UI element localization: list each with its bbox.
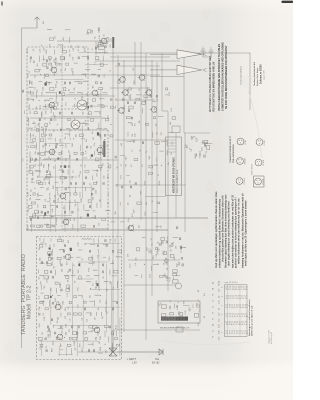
svg-text:Spenningene er malt med rorvol: Spenningene er malt med rorvoltmeter (248, 299, 251, 336)
svg-text:b: b (222, 314, 224, 315)
svg-text:15k: 15k (38, 211, 40, 214)
driver transformer T4 (166, 137, 182, 196)
svg-text:D17: D17 (65, 102, 67, 105)
svg-text:47p: 47p (130, 180, 132, 183)
svg-text:22n: 22n (136, 257, 138, 260)
svg-text:33k: 33k (39, 247, 41, 250)
wire: horizontal bus y=185 (115, 184, 186, 186)
pinout view U1 (237, 138, 244, 145)
svg-text:Modell TP 2-2: Modell TP 2-2 (26, 285, 32, 319)
svg-text:130: 130 (172, 142, 174, 145)
wire: left outer border (21, 28, 23, 348)
svg-text:3,3: 3,3 (78, 49, 80, 51)
svg-text:3,3: 3,3 (157, 99, 159, 102)
svg-text:D74: D74 (57, 187, 59, 190)
svg-text:15k: 15k (102, 163, 104, 166)
svg-text:C74: C74 (35, 164, 37, 167)
svg-text:4,7k: 4,7k (121, 175, 123, 179)
svg-text:R88: R88 (171, 242, 174, 247)
svg-text:R89: R89 (146, 202, 148, 205)
svg-text:15k: 15k (104, 34, 106, 37)
wire: horizontal bus y=100 (115, 99, 155, 101)
svg-text:39k: 39k (98, 307, 100, 310)
svg-text:L58: L58 (175, 246, 177, 249)
svg-text:50: 50 (68, 271, 70, 273)
svg-text:130: 130 (156, 123, 158, 126)
connector socket 1 (203, 52, 207, 56)
svg-text:0,1 2,1 0,1 2,1 75 6,0 0,1: 0,1 2,1 0,1 2,1 75 6,0 0,1 (226, 307, 249, 309)
svg-text:39k: 39k (70, 129, 72, 132)
svg-text:560: 560 (62, 269, 64, 272)
wire: vertical bus x=113 (112, 40, 114, 352)
wire: corner y=133 (184, 132, 210, 134)
svg-text:0,01: 0,01 (133, 139, 135, 143)
FM tuner inner shield partition (61, 109, 63, 130)
svg-text:C84: C84 (98, 93, 100, 96)
svg-text:8,2k: 8,2k (27, 118, 29, 122)
svg-text:82: 82 (68, 307, 70, 309)
wire: box bottom lead (145, 196, 166, 198)
svg-text:C50: C50 (63, 239, 65, 243)
transistor Q2 (92, 90, 98, 96)
svg-text:10n: 10n (115, 106, 117, 109)
transistor Q14 (123, 90, 129, 96)
transistor Q19 (128, 225, 134, 231)
svg-text:33k: 33k (49, 163, 51, 166)
svg-text:3,3: 3,3 (35, 126, 37, 129)
svg-text:0,01: 0,01 (40, 170, 42, 173)
svg-text:C93: C93 (133, 68, 135, 71)
svg-text:470: 470 (98, 223, 100, 226)
wire: horizontal bus y=96 (30, 95, 115, 97)
svg-text:8,4: 8,4 (198, 323, 200, 326)
transistor Q15 (146, 90, 152, 96)
wire: vertical bus x=118 (117, 55, 119, 330)
svg-text:1n: 1n (57, 123, 59, 125)
svg-text:3,3: 3,3 (142, 165, 144, 168)
svg-text:R13: R13 (63, 37, 65, 40)
wire: bus x=176 (175, 133, 177, 218)
svg-text:D48: D48 (95, 215, 97, 218)
svg-text:10n: 10n (34, 159, 36, 162)
svg-text:50: 50 (132, 150, 134, 152)
svg-text:10n: 10n (62, 98, 64, 101)
svg-text:T28: T28 (28, 209, 30, 212)
svg-text:27k: 27k (161, 225, 163, 228)
transistor Q6 (63, 219, 69, 225)
svg-text:L31: L31 (87, 319, 89, 322)
svg-text:33k: 33k (37, 175, 39, 178)
svg-text:50 209 aug 61: 50 209 aug 61 (271, 332, 273, 344)
voltage table box (225, 285, 248, 337)
upper tone cluster (150, 240, 184, 271)
antenna terminal symbols (201, 47, 206, 57)
svg-text:T3: T3 (213, 294, 215, 296)
svg-text:33k: 33k (67, 279, 69, 282)
FM mixer transistor (large) (77, 100, 87, 110)
FM strip divider (dashed) (27, 48, 62, 230)
svg-text:R62: R62 (70, 217, 72, 220)
svg-text:TRANSISTORENE ER SETT: TRANSISTORENE ER SETT (229, 135, 232, 163)
pinout view U2 (256, 139, 263, 146)
FM/IF strip components (27, 47, 110, 230)
svg-text:L40: L40 (121, 143, 123, 146)
svg-text:C91: C91 (47, 224, 49, 227)
svg-text:OC614: OC614 (263, 160, 265, 166)
svg-text:2,2k: 2,2k (61, 63, 63, 67)
svg-text:C17: C17 (93, 137, 95, 140)
svg-text:T58: T58 (44, 286, 46, 289)
svg-text:12k: 12k (86, 139, 88, 142)
svg-text:L39: L39 (46, 243, 48, 246)
svg-text:C71: C71 (54, 244, 56, 248)
svg-text:VED UTSKIFTING MA IMPEDANSEN V: VED UTSKIFTING MA IMPEDANSEN VARE LIK (213, 61, 216, 112)
transistor Q12 (120, 77, 126, 83)
svg-text:0,5: 0,5 (37, 287, 39, 290)
svg-text:12k: 12k (116, 184, 118, 187)
svg-text:T13: T13 (206, 151, 208, 154)
svg-text:mellom forekomme annet uten me: mellom forekomme annet uten mellom malt … (238, 198, 241, 264)
svg-text:5p: 5p (117, 166, 119, 168)
svg-text:0,5: 0,5 (39, 277, 41, 280)
wire: vertical bus x=96 (95, 41, 97, 55)
FM/IF strip wiring (31, 52, 108, 232)
svg-text:50: 50 (71, 124, 73, 126)
svg-text:2n: 2n (158, 174, 160, 176)
svg-text:33k: 33k (65, 136, 67, 139)
svg-text:D1: D1 (213, 324, 215, 326)
wire: vertical bus x=141 (140, 42, 142, 220)
svg-text:50: 50 (44, 118, 46, 120)
svg-text:T83: T83 (52, 215, 54, 218)
wire: vertical bus x=152 (151, 60, 153, 296)
svg-text:75mA: 75mA (218, 280, 221, 286)
paper crease marks (248, 90, 262, 158)
pinout view U5 (236, 178, 243, 185)
transistor Q3 (49, 102, 55, 108)
svg-text:D1: D1 (213, 282, 215, 284)
FM osc transistor (large) (71, 120, 80, 129)
transistor Q16 (119, 108, 125, 114)
svg-text:SELENLIKERETTER B250 C75: SELENLIKERETTER B250 C75 (160, 328, 190, 330)
vertical chain x=168 parts (165, 267, 178, 283)
svg-text:august 1961: august 1961 (263, 70, 266, 80)
svg-text:L59: L59 (93, 343, 95, 346)
wire: bus x=185 (184, 133, 186, 232)
wire: vertical bus x=124 (123, 60, 125, 332)
svg-text:0,1: 0,1 (131, 164, 133, 166)
svg-text:T3: T3 (213, 336, 215, 338)
svg-text:+ NETT: + NETT (127, 357, 136, 361)
svg-text:12 1,2 2,1 1,2 8,4 2,1 12: 12 1,2 2,1 1,2 8,4 2,1 12 (226, 298, 249, 300)
left column components x=22..38 (23, 80, 40, 230)
pinout view U6 (255, 178, 262, 185)
svg-text:22n: 22n (50, 121, 52, 124)
svg-text:130: 130 (31, 189, 33, 192)
svg-text:2N1307: 2N1307 (245, 158, 247, 165)
svg-text:6,8: 6,8 (29, 71, 31, 73)
svg-text:10n: 10n (65, 68, 67, 71)
svg-text:C73: C73 (50, 193, 52, 196)
svg-text:1M: 1M (95, 317, 97, 320)
wire: horizontal bus y=218 (30, 217, 208, 219)
svg-text:T4: T4 (213, 288, 215, 290)
top RF extra parts (87, 28, 114, 50)
svg-text:a: a (222, 305, 224, 306)
scanner edge bar top-right (282, 1, 294, 3)
svg-text:T1: T1 (213, 312, 215, 314)
AM strip wiring (39, 243, 120, 356)
svg-text:2n: 2n (80, 164, 82, 166)
wire: vertical bus x=157 (156, 62, 158, 232)
svg-text:22n: 22n (35, 151, 37, 154)
FM tuner shield box (dashed) (27, 47, 108, 230)
svg-text:10n: 10n (51, 110, 53, 113)
svg-text:82: 82 (68, 89, 70, 91)
transistor Q7 (97, 147, 103, 153)
svg-text:R41: R41 (91, 313, 93, 316)
svg-text:EA 162: EA 162 (152, 362, 160, 365)
svg-text:T68: T68 (100, 137, 102, 140)
svg-text:82: 82 (152, 200, 154, 202)
wire: stepped wire right mid (162, 111, 168, 291)
svg-text:0,01: 0,01 (27, 49, 29, 53)
wire: horizontal bus y=75 (30, 74, 160, 76)
svg-text:b: b (222, 332, 224, 333)
wire: horizontal bus y=160 (30, 159, 118, 161)
transistor Q5 (60, 193, 66, 199)
wire: bus y=61 (95, 60, 180, 62)
AF output stage components (125, 87, 175, 176)
svg-text:Tandberg Radiofabrikk A/S: Tandberg Radiofabrikk A/S (253, 61, 256, 86)
svg-text:inntil signal de ikke nye 20 i: inntil signal de ikke nye 20 i Spenninge… (245, 200, 248, 266)
svg-text:R4: R4 (97, 170, 99, 172)
svg-text:220: 220 (42, 332, 44, 335)
svg-text:470: 470 (127, 254, 129, 257)
svg-text:470: 470 (97, 173, 99, 176)
svg-text:0,1: 0,1 (107, 144, 109, 147)
svg-text:T2: T2 (213, 318, 215, 320)
paper mottle texture (3, 9, 252, 360)
svg-text:27k: 27k (37, 90, 39, 93)
wire: horizontal bus y=285 (124, 284, 176, 286)
wire: battery feed (117, 351, 162, 353)
svg-text:45: 45 (204, 316, 206, 318)
FM left column extra parts (27, 49, 57, 228)
wire: top-left segment to antenna (22, 27, 38, 29)
transistor Q9 (55, 304, 61, 310)
svg-text:33k: 33k (170, 249, 172, 252)
svg-text:1,2: 1,2 (199, 309, 201, 312)
svg-text:Schema nr 50209: Schema nr 50209 (260, 64, 263, 84)
svg-text:470: 470 (75, 348, 77, 351)
connector socket 2 (203, 68, 207, 72)
svg-text:0,5: 0,5 (35, 87, 37, 89)
power supply block PS1 (158, 301, 200, 323)
selenium rectifier plate stack (161, 317, 188, 321)
svg-text:1,5V: 1,5V (132, 363, 137, 365)
svg-text:0,1 8,4 2,1 1,2 1,2 0,1 2,1: 0,1 8,4 2,1 1,2 1,2 0,1 2,1 (226, 333, 250, 335)
svg-text:12 75 6,0 1,2 75 6,0 2,1: 12 75 6,0 1,2 75 6,0 2,1 (226, 324, 248, 326)
wire: speaker feed 3 (150, 76, 184, 78)
svg-text:1n: 1n (46, 134, 48, 136)
svg-text:T81: T81 (135, 123, 137, 126)
svg-text:82: 82 (57, 81, 59, 83)
svg-text:D78: D78 (169, 92, 171, 95)
svg-text:C82: C82 (50, 334, 52, 338)
pinout U6 box (254, 176, 265, 187)
svg-text:D15: D15 (153, 256, 155, 259)
small loop component (176, 283, 182, 289)
svg-text:OC45: OC45 (245, 140, 247, 145)
svg-text:100k: 100k (32, 81, 34, 85)
svg-text:12k: 12k (50, 244, 52, 247)
svg-text:b: b (222, 296, 224, 297)
wire: vertical bus x=162 (161, 53, 163, 111)
svg-text:HOYTTALER OG UTGANG KOBLES SOM: HOYTTALER OG UTGANG KOBLES SOM VIST HER (209, 56, 212, 112)
svg-text:82: 82 (139, 89, 141, 91)
svg-text:47p: 47p (61, 330, 63, 333)
svg-text:0,01: 0,01 (41, 92, 43, 96)
svg-text:50: 50 (150, 238, 152, 240)
mid AF components (185, 136, 212, 159)
svg-text:22n: 22n (82, 295, 84, 298)
svg-text:D12: D12 (30, 80, 32, 83)
svg-text:10n: 10n (37, 64, 39, 67)
wire: vertical bus x=146 (145, 53, 147, 340)
svg-text:12k: 12k (30, 90, 32, 93)
transistor Q1 (51, 67, 57, 73)
svg-text:2n: 2n (46, 346, 48, 348)
svg-text:T52: T52 (108, 202, 110, 205)
transistor Q18 (101, 38, 107, 44)
svg-text:4,7k: 4,7k (169, 276, 172, 281)
rectifier block (172, 126, 180, 133)
AM left column extra parts (38, 243, 71, 347)
svg-text:20000 ohm pr volt Batteri 6 v: 20000 ohm pr volt Batteri 6 volt (251, 305, 254, 336)
svg-text:6,8: 6,8 (135, 263, 137, 265)
svg-text:OC45: OC45 (264, 141, 266, 146)
svg-text:T36: T36 (35, 75, 37, 78)
svg-text:T1: T1 (213, 300, 215, 302)
svg-text:1M: 1M (53, 166, 55, 169)
svg-text:1M: 1M (99, 341, 101, 344)
svg-text:1M: 1M (115, 211, 117, 214)
svg-text:u ov 1 2 3 4 5 e: u ov 1 2 3 4 5 e (225, 282, 238, 284)
svg-text:15k: 15k (171, 152, 173, 155)
transistor Q11 (57, 334, 63, 340)
svg-text:D38: D38 (149, 156, 151, 159)
svg-text:39k: 39k (82, 112, 84, 115)
wire: vertical x=184 (183, 57, 185, 133)
svg-text:C37: C37 (100, 299, 102, 303)
AF lower components (127, 224, 186, 278)
wire: bus y=41 (57, 40, 113, 42)
scanner edge mark top-left (1, 2, 3, 6)
wire: top bus y=53 (95, 53, 250, 110)
svg-text:100k: 100k (65, 324, 67, 328)
svg-text:OC614: OC614 (244, 179, 246, 185)
top RF components (41, 26, 110, 51)
svg-text:C84: C84 (104, 176, 106, 179)
wire: speaker feed 1 (150, 53, 177, 55)
svg-text:C53: C53 (99, 28, 101, 33)
svg-text:0,01: 0,01 (52, 261, 54, 265)
wire: speaker feed 2 (150, 69, 177, 71)
transistor Q4 (49, 149, 55, 155)
svg-text:8,4: 8,4 (204, 293, 206, 296)
pinout view U3 (237, 158, 244, 165)
svg-text:18p: 18p (36, 107, 38, 110)
wire: to mains plug (112, 330, 114, 352)
svg-text:33k: 33k (30, 197, 32, 200)
svg-text:1n: 1n (205, 145, 207, 147)
svg-text:39k: 39k (44, 178, 46, 181)
svg-text:FRA LODDESIDEN: FRA LODDESIDEN (232, 144, 235, 163)
AM strip components (37, 236, 121, 354)
svg-text:12k: 12k (50, 172, 52, 175)
svg-text:100k: 100k (61, 313, 63, 317)
wire: horizontal bus y=352 (78, 351, 160, 353)
wire: horizontal bus y=260 (128, 259, 180, 261)
pinout view U4 (255, 159, 262, 166)
svg-text:R66: R66 (32, 172, 34, 175)
wire: vertical bus x=135 (134, 42, 136, 85)
svg-text:L98: L98 (50, 197, 52, 200)
svg-text:22n: 22n (78, 45, 80, 48)
svg-text:T71: T71 (145, 100, 147, 103)
svg-text:R65: R65 (140, 191, 142, 194)
capacitor C-el dark bar top (112, 37, 114, 48)
wire: horizontal bus y=230 (26, 229, 168, 231)
volume control cluster (127, 180, 161, 216)
svg-text:82: 82 (139, 150, 141, 152)
svg-text:2N217 2N270: 2N217 2N270 (252, 164, 254, 175)
svg-text:T65: T65 (54, 266, 56, 269)
svg-text:6,8: 6,8 (92, 132, 94, 135)
svg-text:220V: 220V (98, 353, 103, 355)
svg-text:100k: 100k (105, 50, 107, 54)
svg-text:L59: L59 (65, 144, 67, 147)
AM tuner shield box (dashed) (37, 237, 122, 360)
svg-text:R70: R70 (80, 344, 82, 347)
wire: horizontal bus y=88 (110, 87, 150, 89)
transistor Q8 (65, 254, 71, 260)
svg-text:12k: 12k (34, 121, 36, 124)
wire: horizontal bus y=57 (110, 56, 170, 58)
svg-text:T1: T1 (213, 330, 215, 332)
svg-text:C76: C76 (94, 239, 96, 243)
svg-text:4,7k: 4,7k (57, 191, 59, 195)
mains plug symbol X1 (109, 348, 117, 356)
svg-text:6,8: 6,8 (92, 283, 94, 285)
svg-text:b: b (222, 287, 224, 288)
svg-text:0,1: 0,1 (34, 60, 36, 63)
svg-text:2n: 2n (73, 264, 75, 266)
wire: horizontal bus y=330 (113, 329, 200, 331)
svg-text:15k: 15k (86, 102, 88, 105)
wire: horizontal bus y=140 (115, 139, 168, 141)
wire: horizontal bus y=66 (115, 65, 160, 67)
diode D9 (159, 349, 163, 355)
svg-text:C99: C99 (55, 115, 57, 118)
svg-text:39k: 39k (74, 218, 76, 221)
transistor Q17 (151, 107, 157, 113)
svg-text:45: 45 (198, 290, 200, 292)
speaker arrow wedge 2 (177, 65, 202, 74)
tone control cluster (191, 137, 209, 155)
svg-text:D14: D14 (69, 329, 71, 332)
